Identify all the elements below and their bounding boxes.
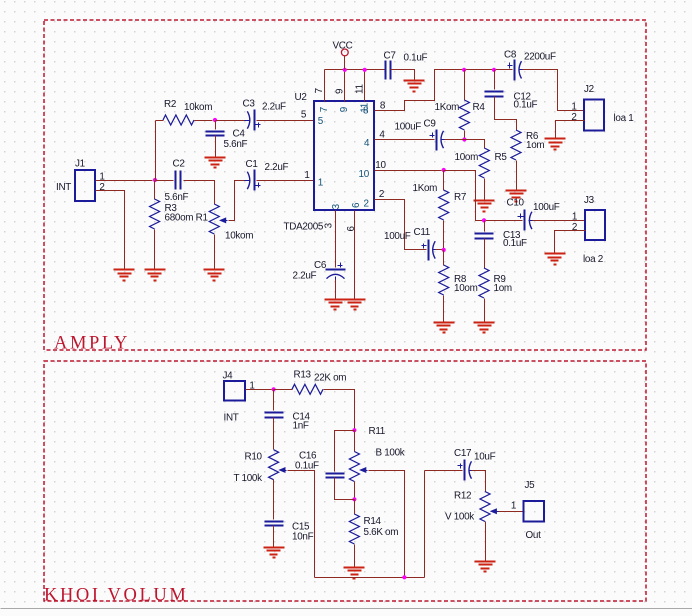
pin 3 wire to C6 bbox=[335, 211, 337, 268]
pin name 11 inside bbox=[360, 102, 371, 112]
junction J4/R13/C14 bbox=[272, 387, 276, 391]
svg-text:0.1uF: 0.1uF bbox=[503, 238, 527, 249]
pin number 8 bbox=[380, 101, 386, 112]
svg-text:J5: J5 bbox=[525, 480, 536, 491]
wiper arrow R11 bbox=[359, 467, 367, 473]
svg-text:C9: C9 bbox=[424, 119, 437, 130]
label C1 bbox=[246, 159, 259, 170]
ground C4 bbox=[205, 158, 226, 168]
ground R6 bbox=[506, 191, 527, 202]
label loa 2 bbox=[583, 254, 603, 265]
label C11 bbox=[414, 227, 431, 238]
pin name 5 inside bbox=[318, 116, 324, 127]
resistor R13 bbox=[292, 384, 323, 394]
value 2.2uF (C1) bbox=[265, 162, 289, 173]
pin name 1 inside bbox=[318, 178, 324, 189]
wire J3 pin2 to ground bbox=[555, 231, 586, 254]
value 1Kom (R4) bbox=[435, 102, 460, 113]
label C8 bbox=[504, 49, 517, 60]
ground R12 bbox=[475, 562, 496, 572]
svg-text:J1: J1 bbox=[75, 159, 86, 170]
svg-text:5.6nF: 5.6nF bbox=[165, 192, 189, 203]
node B junction (R2/C3/C4) bbox=[213, 118, 217, 122]
label KHOI VOLUM bbox=[44, 586, 188, 606]
junction R4/C9/R5 bbox=[462, 137, 466, 141]
label C17 bbox=[454, 448, 471, 459]
wire R4 top lead bbox=[464, 70, 466, 101]
wire R9 to ground bbox=[484, 299, 486, 323]
op-amp U2 TDA2005 body bbox=[314, 101, 374, 210]
ground J3 pin2 bbox=[545, 254, 566, 265]
pin name 7 inside bbox=[319, 107, 330, 112]
wire C15 to ground bbox=[273, 526, 275, 548]
wire R12 wiper to J5 bbox=[499, 511, 524, 513]
node A junction bbox=[153, 178, 157, 182]
svg-text:4: 4 bbox=[364, 138, 370, 149]
svg-text:3: 3 bbox=[331, 203, 342, 209]
wire C12 top lead bbox=[494, 70, 496, 90]
junction bottom bus bbox=[402, 575, 406, 579]
svg-text:9: 9 bbox=[335, 88, 346, 94]
power port VCC bbox=[341, 49, 348, 70]
connector J5 bbox=[524, 501, 545, 522]
svg-text:100uF: 100uF bbox=[533, 202, 560, 213]
capacitor C8 bbox=[508, 60, 525, 81]
ground C6 bbox=[325, 300, 346, 310]
value 10uF (C17) bbox=[474, 451, 496, 462]
wire C16 top link bbox=[335, 431, 355, 472]
wire junction to R5 bbox=[465, 140, 485, 149]
svg-text:5.6K om: 5.6K om bbox=[364, 527, 399, 538]
svg-text:C2: C2 bbox=[173, 159, 185, 170]
wire C12 to R6 bbox=[495, 97, 517, 131]
wire R7 top lead bbox=[443, 171, 445, 191]
svg-text:2: 2 bbox=[379, 189, 384, 200]
label R8 bbox=[454, 274, 467, 285]
capacitor C13 bbox=[475, 234, 494, 239]
junction R11 top / C16 bbox=[352, 428, 356, 432]
label INT (J4) bbox=[224, 413, 239, 424]
junction C12 top bbox=[492, 68, 496, 72]
capacitor C9 bbox=[430, 130, 447, 151]
wire C14 to R10 bbox=[273, 418, 275, 450]
wire C13 top lead bbox=[484, 221, 486, 232]
label C2 bbox=[173, 159, 185, 170]
wire node A to C2 bbox=[156, 180, 174, 182]
value 2.2uF (C6) bbox=[293, 270, 317, 281]
pin 1 label J5 bbox=[511, 501, 517, 512]
label C14 bbox=[293, 411, 311, 422]
label R14 bbox=[364, 516, 382, 527]
pin 11 stub bbox=[364, 70, 366, 102]
label U2 bbox=[295, 92, 307, 103]
pin number 2 bbox=[379, 189, 384, 200]
svg-text:R13: R13 bbox=[294, 370, 312, 381]
capacitor C17 bbox=[458, 460, 475, 481]
junction R7/R8/C11 bbox=[442, 248, 446, 252]
svg-text:6: 6 bbox=[346, 226, 357, 232]
svg-text:Out: Out bbox=[526, 530, 542, 541]
value 10nF (C15) bbox=[292, 532, 314, 543]
capacitor C1 bbox=[245, 170, 261, 191]
value 100uF (C11) bbox=[384, 231, 411, 242]
svg-text:1om: 1om bbox=[526, 140, 544, 151]
wire R13 right lead bbox=[324, 390, 355, 429]
svg-text:R5: R5 bbox=[495, 152, 508, 163]
svg-text:INT: INT bbox=[56, 182, 71, 193]
pin 1 label J4 bbox=[249, 381, 255, 392]
connector J3 bbox=[585, 210, 605, 240]
label J5 bbox=[525, 480, 536, 491]
value 680om R1 bbox=[165, 213, 209, 224]
svg-text:5: 5 bbox=[301, 110, 307, 121]
wire bottom bus bbox=[315, 577, 425, 579]
svg-text:1om: 1om bbox=[494, 283, 512, 294]
label C6 bbox=[314, 260, 327, 271]
svg-text:TDA2005: TDA2005 bbox=[284, 222, 324, 233]
capacitor C16 bbox=[326, 474, 345, 478]
wire R12 to ground bbox=[485, 522, 487, 562]
value T 100k (R10) bbox=[234, 473, 263, 484]
svg-text:2.2uF: 2.2uF bbox=[265, 162, 289, 173]
pin 2 label J2 bbox=[571, 112, 576, 123]
wire R11 top lead bbox=[354, 431, 356, 452]
value 10kom (R2) bbox=[184, 102, 212, 113]
svg-text:2.2uF: 2.2uF bbox=[262, 102, 286, 113]
label C7 bbox=[384, 50, 396, 61]
svg-text:680om R1: 680om R1 bbox=[165, 213, 209, 224]
resistor R12 bbox=[480, 492, 490, 522]
pin 2 label J3 bbox=[572, 222, 577, 233]
label R7 bbox=[454, 192, 466, 203]
wire C17 branch down bbox=[424, 471, 426, 578]
connector J4 bbox=[224, 381, 245, 401]
wire R3 to ground bbox=[154, 230, 156, 270]
label J2 bbox=[584, 84, 594, 95]
svg-text:5: 5 bbox=[318, 116, 324, 127]
pin name 2 inside bbox=[364, 199, 369, 210]
label R11 bbox=[369, 426, 386, 437]
pin name 3 inside bbox=[331, 203, 342, 209]
sheet border KHOI VOLUM block bbox=[44, 361, 646, 601]
svg-text:10nF: 10nF bbox=[292, 532, 314, 543]
svg-text:R11: R11 bbox=[369, 426, 386, 437]
wire C9 to junction bbox=[445, 139, 465, 141]
value 10kom (R1) bbox=[225, 231, 253, 242]
value 2200uF (C8) bbox=[524, 51, 556, 62]
pin 1 label J3 bbox=[572, 212, 578, 223]
window bottom edge bbox=[1, 608, 692, 610]
wire J1 pin2 down bbox=[96, 191, 125, 270]
value 1Kom (R7) bbox=[413, 183, 438, 194]
label J3 bbox=[584, 195, 595, 206]
resistor R4 bbox=[459, 100, 469, 130]
wire C17 left lead bbox=[425, 470, 463, 472]
pin name 4 inside bbox=[364, 138, 370, 149]
capacitor C6 bbox=[326, 263, 346, 280]
wire C16 bottom link bbox=[335, 478, 355, 500]
junction R7 top bbox=[442, 168, 446, 172]
pin number 11 bbox=[355, 84, 366, 94]
svg-text:J2: J2 bbox=[584, 84, 594, 95]
capacitor C15 bbox=[265, 522, 284, 526]
svg-text:C10: C10 bbox=[507, 198, 525, 209]
svg-text:loa 1: loa 1 bbox=[614, 113, 635, 124]
wire C13 to R9 bbox=[484, 239, 486, 269]
wire VCC rail bbox=[325, 69, 386, 71]
pin 9 stub bbox=[344, 70, 346, 102]
svg-text:10om: 10om bbox=[454, 283, 478, 294]
pin name 9 inside bbox=[339, 106, 350, 112]
svg-text:loa 2: loa 2 bbox=[583, 254, 603, 265]
svg-text:V 100k: V 100k bbox=[445, 511, 474, 522]
pin name 10 inside bbox=[359, 169, 370, 180]
svg-text:7: 7 bbox=[314, 88, 325, 93]
svg-text:10uF: 10uF bbox=[474, 451, 496, 462]
label R9 bbox=[494, 274, 507, 285]
wire J1 pin1 to node A bbox=[96, 180, 153, 182]
wire R10 wiper down bbox=[288, 471, 315, 578]
pin number 1 bbox=[304, 170, 310, 181]
label C4 bbox=[233, 129, 246, 140]
wire R7 bottom lead bbox=[443, 221, 445, 250]
svg-text:R4: R4 bbox=[473, 102, 486, 113]
svg-text:2: 2 bbox=[571, 112, 576, 123]
wire R13 left lead bbox=[274, 389, 293, 391]
wire C10 to J3 pin1 bbox=[533, 220, 586, 222]
svg-text:J3: J3 bbox=[584, 195, 595, 206]
label C15 bbox=[292, 521, 310, 532]
value 0.1uF (C12) bbox=[514, 100, 538, 111]
label AMPLY bbox=[54, 334, 130, 354]
svg-text:3: 3 bbox=[323, 222, 334, 228]
wiper arrow R1 bbox=[219, 217, 228, 223]
wire C3 to pin 5 bbox=[257, 120, 315, 122]
pin 7 stub bbox=[324, 70, 326, 102]
junction R4 top bbox=[462, 68, 466, 72]
wire C14 top lead bbox=[273, 390, 275, 411]
wire R11 bottom lead bbox=[354, 482, 356, 500]
capacitor C3 bbox=[245, 110, 261, 131]
wire R6 to ground bbox=[516, 161, 518, 191]
svg-text:C4: C4 bbox=[233, 129, 246, 140]
label R12 bbox=[454, 491, 471, 502]
wire J2 pin2 to ground bbox=[556, 121, 585, 139]
wiper arrow R12 bbox=[490, 508, 499, 514]
svg-text:0.1uF: 0.1uF bbox=[295, 461, 319, 472]
capacitor C14 bbox=[265, 413, 284, 418]
svg-text:0.1uF: 0.1uF bbox=[514, 100, 538, 111]
svg-text:22K om: 22K om bbox=[314, 372, 346, 383]
label J4 bbox=[223, 371, 234, 382]
svg-text:9: 9 bbox=[339, 106, 350, 112]
resistor R1 bbox=[209, 204, 219, 234]
wiper arrow R10 bbox=[278, 467, 286, 473]
wire J4 pin1 bbox=[246, 389, 272, 391]
svg-text:10: 10 bbox=[375, 160, 386, 171]
wire R4 bottom lead bbox=[464, 131, 466, 140]
resistor R3 bbox=[150, 199, 160, 229]
junction C13/C10 bbox=[482, 218, 486, 222]
label loa 1 bbox=[614, 113, 635, 124]
svg-text:1: 1 bbox=[318, 178, 324, 189]
svg-text:10kom: 10kom bbox=[225, 231, 253, 242]
label TDA2005 bbox=[284, 222, 324, 233]
wire R14 to ground bbox=[354, 545, 356, 568]
svg-text:U2: U2 bbox=[295, 92, 307, 103]
svg-text:R12: R12 bbox=[454, 491, 471, 502]
label INT (J1) bbox=[56, 182, 71, 193]
value V 100k (R12) bbox=[445, 511, 474, 522]
value 5.6nF (C4) bbox=[224, 139, 248, 150]
ground pin 6 bbox=[345, 300, 366, 310]
sheet border AMPLY block bbox=[44, 20, 646, 350]
resistor R7 bbox=[439, 190, 449, 220]
svg-text:1: 1 bbox=[304, 170, 310, 181]
resistor R10 bbox=[269, 450, 279, 480]
label R10 bbox=[245, 452, 263, 463]
svg-text:1: 1 bbox=[511, 501, 517, 512]
svg-text:7: 7 bbox=[319, 107, 330, 112]
wire C7 to ground bbox=[391, 70, 415, 81]
svg-text:1Kom: 1Kom bbox=[435, 102, 460, 113]
resistor R9 bbox=[479, 268, 489, 298]
resistor R14 bbox=[349, 514, 359, 544]
capacitor C7 bbox=[386, 61, 391, 80]
label R3 bbox=[165, 203, 178, 214]
label R2 bbox=[164, 99, 176, 110]
svg-text:10: 10 bbox=[359, 169, 370, 180]
svg-text:2: 2 bbox=[364, 199, 369, 210]
value B 100k (R11) bbox=[376, 448, 405, 459]
label J1 bbox=[75, 159, 86, 170]
value 22K om (R13) bbox=[314, 372, 346, 383]
pin number 9 bbox=[335, 88, 346, 94]
resistor R8 bbox=[439, 265, 449, 295]
ground J2 pin2 bbox=[545, 139, 566, 150]
value 0.1uF (C7) bbox=[404, 53, 428, 64]
pin number 10 bbox=[375, 160, 386, 171]
wire pin10 to C10 node bbox=[444, 171, 523, 221]
pin name 8 inside bbox=[363, 105, 369, 116]
wire pin 8 riser bbox=[375, 70, 513, 111]
svg-text:2200uF: 2200uF bbox=[524, 51, 556, 62]
svg-text:1Kom: 1Kom bbox=[413, 183, 438, 194]
label C10 bbox=[507, 198, 525, 209]
wire C11 to junction bbox=[436, 249, 444, 251]
wire pin 2 to C11 bbox=[375, 200, 427, 250]
wire R10 to C15 bbox=[273, 480, 275, 520]
label C12 bbox=[514, 92, 531, 103]
wire R8 to ground bbox=[443, 296, 445, 323]
pin number 6 bbox=[346, 226, 357, 232]
wire node B to C3 bbox=[216, 120, 246, 122]
value 100uF (C9) bbox=[395, 122, 422, 133]
svg-text:5.6nF: 5.6nF bbox=[224, 139, 248, 150]
label VCC bbox=[333, 41, 353, 52]
resistor R6 bbox=[511, 130, 521, 160]
value 10om (R5) bbox=[455, 152, 479, 163]
wire node B to C4 bbox=[215, 121, 217, 130]
svg-text:10kom: 10kom bbox=[184, 102, 212, 113]
wire C1 to pin 1 bbox=[257, 180, 315, 182]
wire pin 10 out bbox=[375, 170, 442, 172]
wire R8 top lead bbox=[443, 250, 445, 266]
ground R3 bbox=[145, 270, 166, 281]
wire node A up to R2 bbox=[155, 121, 157, 181]
wire R11 wiper down bbox=[369, 471, 405, 578]
label C16 bbox=[299, 450, 317, 461]
wire R1 to ground bbox=[214, 235, 216, 270]
svg-text:2: 2 bbox=[99, 182, 104, 193]
svg-text:INT: INT bbox=[224, 413, 239, 424]
value 5.6K om (R14) bbox=[364, 527, 399, 538]
label R13 bbox=[294, 370, 312, 381]
value 0.1uF (C13) bbox=[503, 238, 527, 249]
capacitor C2 bbox=[176, 171, 181, 190]
label Out bbox=[526, 530, 542, 541]
wire R14 top lead bbox=[354, 500, 356, 515]
pin number 7 bbox=[314, 88, 325, 93]
wire R2 right lead bbox=[195, 120, 213, 122]
pin name 6 inside bbox=[351, 202, 362, 208]
value 100uF (C10) bbox=[533, 202, 560, 213]
value 1om (R9) bbox=[494, 283, 512, 294]
svg-text:VCC: VCC bbox=[333, 41, 353, 52]
svg-text:10om: 10om bbox=[455, 152, 479, 163]
value 1nF (C14) bbox=[293, 420, 309, 431]
label R5 bbox=[495, 152, 508, 163]
ground C7 bbox=[404, 81, 425, 92]
junction pin11 rail bbox=[363, 68, 367, 72]
wire C4 to ground bbox=[215, 136, 217, 158]
ground R14 bbox=[344, 568, 365, 579]
pin 2 label J1 bbox=[99, 182, 104, 193]
pin number 5 bbox=[301, 110, 307, 121]
svg-text:R10: R10 bbox=[245, 452, 263, 463]
svg-text:C3: C3 bbox=[243, 99, 256, 110]
svg-text:C1: C1 bbox=[246, 159, 259, 170]
value 0.1uF (C16) bbox=[295, 461, 319, 472]
resistor R2 bbox=[163, 115, 194, 125]
label R4 bbox=[473, 102, 486, 113]
wire C17 to R12 bbox=[472, 471, 486, 492]
svg-text:C7: C7 bbox=[384, 50, 396, 61]
ground R1 bbox=[204, 270, 225, 281]
ground J1 pin2 bbox=[114, 270, 135, 281]
label C13 bbox=[503, 230, 521, 241]
svg-text:8: 8 bbox=[363, 105, 369, 116]
wire C6 to ground bbox=[335, 280, 337, 300]
svg-text:100uF: 100uF bbox=[384, 231, 411, 242]
connector J2 bbox=[584, 100, 604, 131]
capacitor C12 bbox=[485, 92, 504, 97]
wire pin 4 to C9 bbox=[375, 139, 435, 141]
wire R2 left lead bbox=[156, 120, 164, 122]
svg-text:1: 1 bbox=[571, 101, 577, 112]
ground R5 bbox=[474, 201, 495, 212]
svg-text:C17: C17 bbox=[454, 448, 471, 459]
ground R8 bbox=[434, 323, 455, 333]
svg-text:4: 4 bbox=[379, 130, 385, 141]
svg-text:C11: C11 bbox=[414, 227, 431, 238]
svg-text:KHOI VOLUM: KHOI VOLUM bbox=[44, 586, 188, 606]
svg-text:R7: R7 bbox=[454, 192, 466, 203]
label R6 bbox=[526, 131, 539, 142]
pin 1 label J1 bbox=[99, 172, 105, 183]
ground R9 bbox=[474, 323, 495, 333]
junction pin9/VCC bbox=[343, 68, 347, 72]
